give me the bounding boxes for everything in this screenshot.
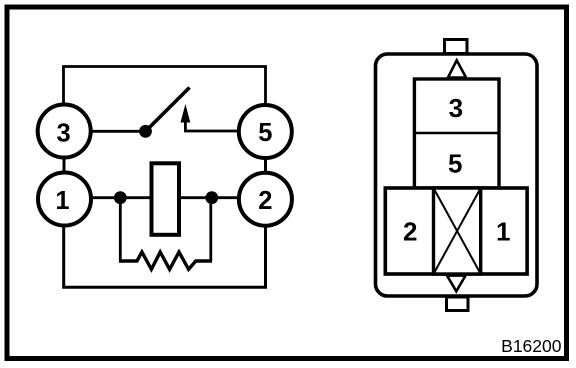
connector bottom tab: [447, 297, 469, 311]
svg-text:2: 2: [403, 216, 417, 246]
pin row cavity 2/1: [385, 188, 527, 274]
key slot X diagonal 2: [434, 188, 481, 274]
connector body: [376, 54, 538, 296]
junction node left: [114, 191, 127, 204]
wire right drop to resistor: [209, 200, 212, 261]
wire terminal 5 to terminal 2: [264, 157, 267, 172]
wire switch arrow to terminal 5: [185, 120, 240, 131]
resistor R1: [119, 252, 212, 269]
svg-text:5: 5: [448, 148, 462, 178]
terminal 1: [38, 173, 91, 226]
orientation arrow bottom: [447, 276, 466, 292]
svg-text:1: 1: [55, 187, 69, 215]
wire bottom (1 to 2): [64, 222, 266, 287]
svg-text:3: 3: [57, 119, 71, 147]
svg-text:B16200: B16200: [501, 336, 562, 356]
junction node right: [205, 191, 218, 204]
wire terminal 3 to switch contact: [90, 130, 146, 133]
terminal 2: [239, 173, 292, 226]
svg-text:3: 3: [449, 93, 463, 123]
wire top (3 to 5): [64, 67, 266, 108]
wire terminal 1 to coil: [90, 196, 153, 199]
wire left drop to resistor: [119, 200, 122, 261]
svg-text:1: 1: [496, 216, 510, 246]
relay coil L1: [152, 163, 180, 235]
terminal 3: [38, 105, 91, 158]
svg-text:2: 2: [258, 187, 272, 215]
orientation arrow top: [448, 60, 466, 77]
switch SW1: [139, 88, 190, 138]
pin divider line: [414, 132, 499, 135]
pin cavity 3/5: [414, 79, 499, 188]
key slot X diagonal 1: [434, 188, 481, 274]
key slot box: [434, 188, 481, 274]
connector top tab: [445, 40, 468, 54]
terminal 5: [239, 105, 292, 158]
wire coil to terminal 2: [178, 196, 240, 199]
wire terminal 3 to terminal 1: [63, 157, 66, 174]
svg-text:5: 5: [258, 119, 272, 147]
